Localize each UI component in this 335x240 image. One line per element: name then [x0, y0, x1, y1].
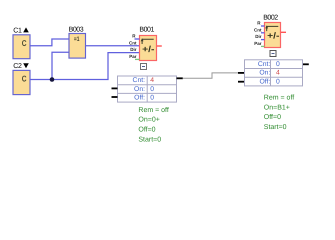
- svg-text:+/-: +/-: [142, 44, 154, 54]
- svg-text:4: 4: [276, 70, 280, 77]
- svg-text:C: C: [22, 73, 27, 83]
- svg-text:Off=0: Off=0: [138, 125, 155, 133]
- svg-text:Off=0: Off=0: [264, 113, 281, 121]
- svg-text:C2: C2: [13, 63, 22, 70]
- svg-text:Start=0: Start=0: [138, 137, 161, 144]
- svg-text:Cnt: Cnt: [129, 40, 137, 45]
- svg-text:Rem = off: Rem = off: [138, 106, 168, 114]
- svg-text:Cnt: Cnt: [254, 27, 262, 32]
- svg-text:Par: Par: [129, 54, 137, 59]
- svg-text:Off:: Off:: [134, 95, 145, 102]
- svg-text:4: 4: [150, 77, 154, 84]
- svg-text:On=0+: On=0+: [138, 117, 159, 124]
- svg-text:=1: =1: [74, 36, 80, 43]
- svg-text:0: 0: [150, 95, 154, 102]
- svg-text:+/-: +/-: [267, 31, 279, 41]
- svg-text:Cnt:: Cnt:: [258, 61, 271, 68]
- svg-text:0: 0: [150, 86, 154, 93]
- svg-text:On:: On:: [134, 86, 145, 93]
- svg-text:On:: On:: [259, 70, 270, 77]
- svg-text:0: 0: [276, 78, 280, 85]
- svg-text:C1: C1: [13, 27, 22, 34]
- svg-text:Par: Par: [254, 41, 262, 46]
- svg-text:Off:: Off:: [259, 78, 270, 85]
- svg-text:Dir: Dir: [255, 34, 262, 39]
- svg-text:B003: B003: [69, 27, 84, 34]
- svg-text:C: C: [22, 38, 27, 48]
- svg-text:Rem = off: Rem = off: [264, 93, 294, 101]
- svg-text:B002: B002: [263, 14, 278, 21]
- svg-text:On=B1+: On=B1+: [264, 104, 290, 111]
- svg-text:Start=0: Start=0: [264, 124, 287, 131]
- svg-text:B001: B001: [139, 27, 154, 34]
- svg-text:0: 0: [276, 61, 280, 68]
- svg-text:Cnt:: Cnt:: [133, 77, 146, 84]
- svg-text:Dir: Dir: [130, 47, 137, 52]
